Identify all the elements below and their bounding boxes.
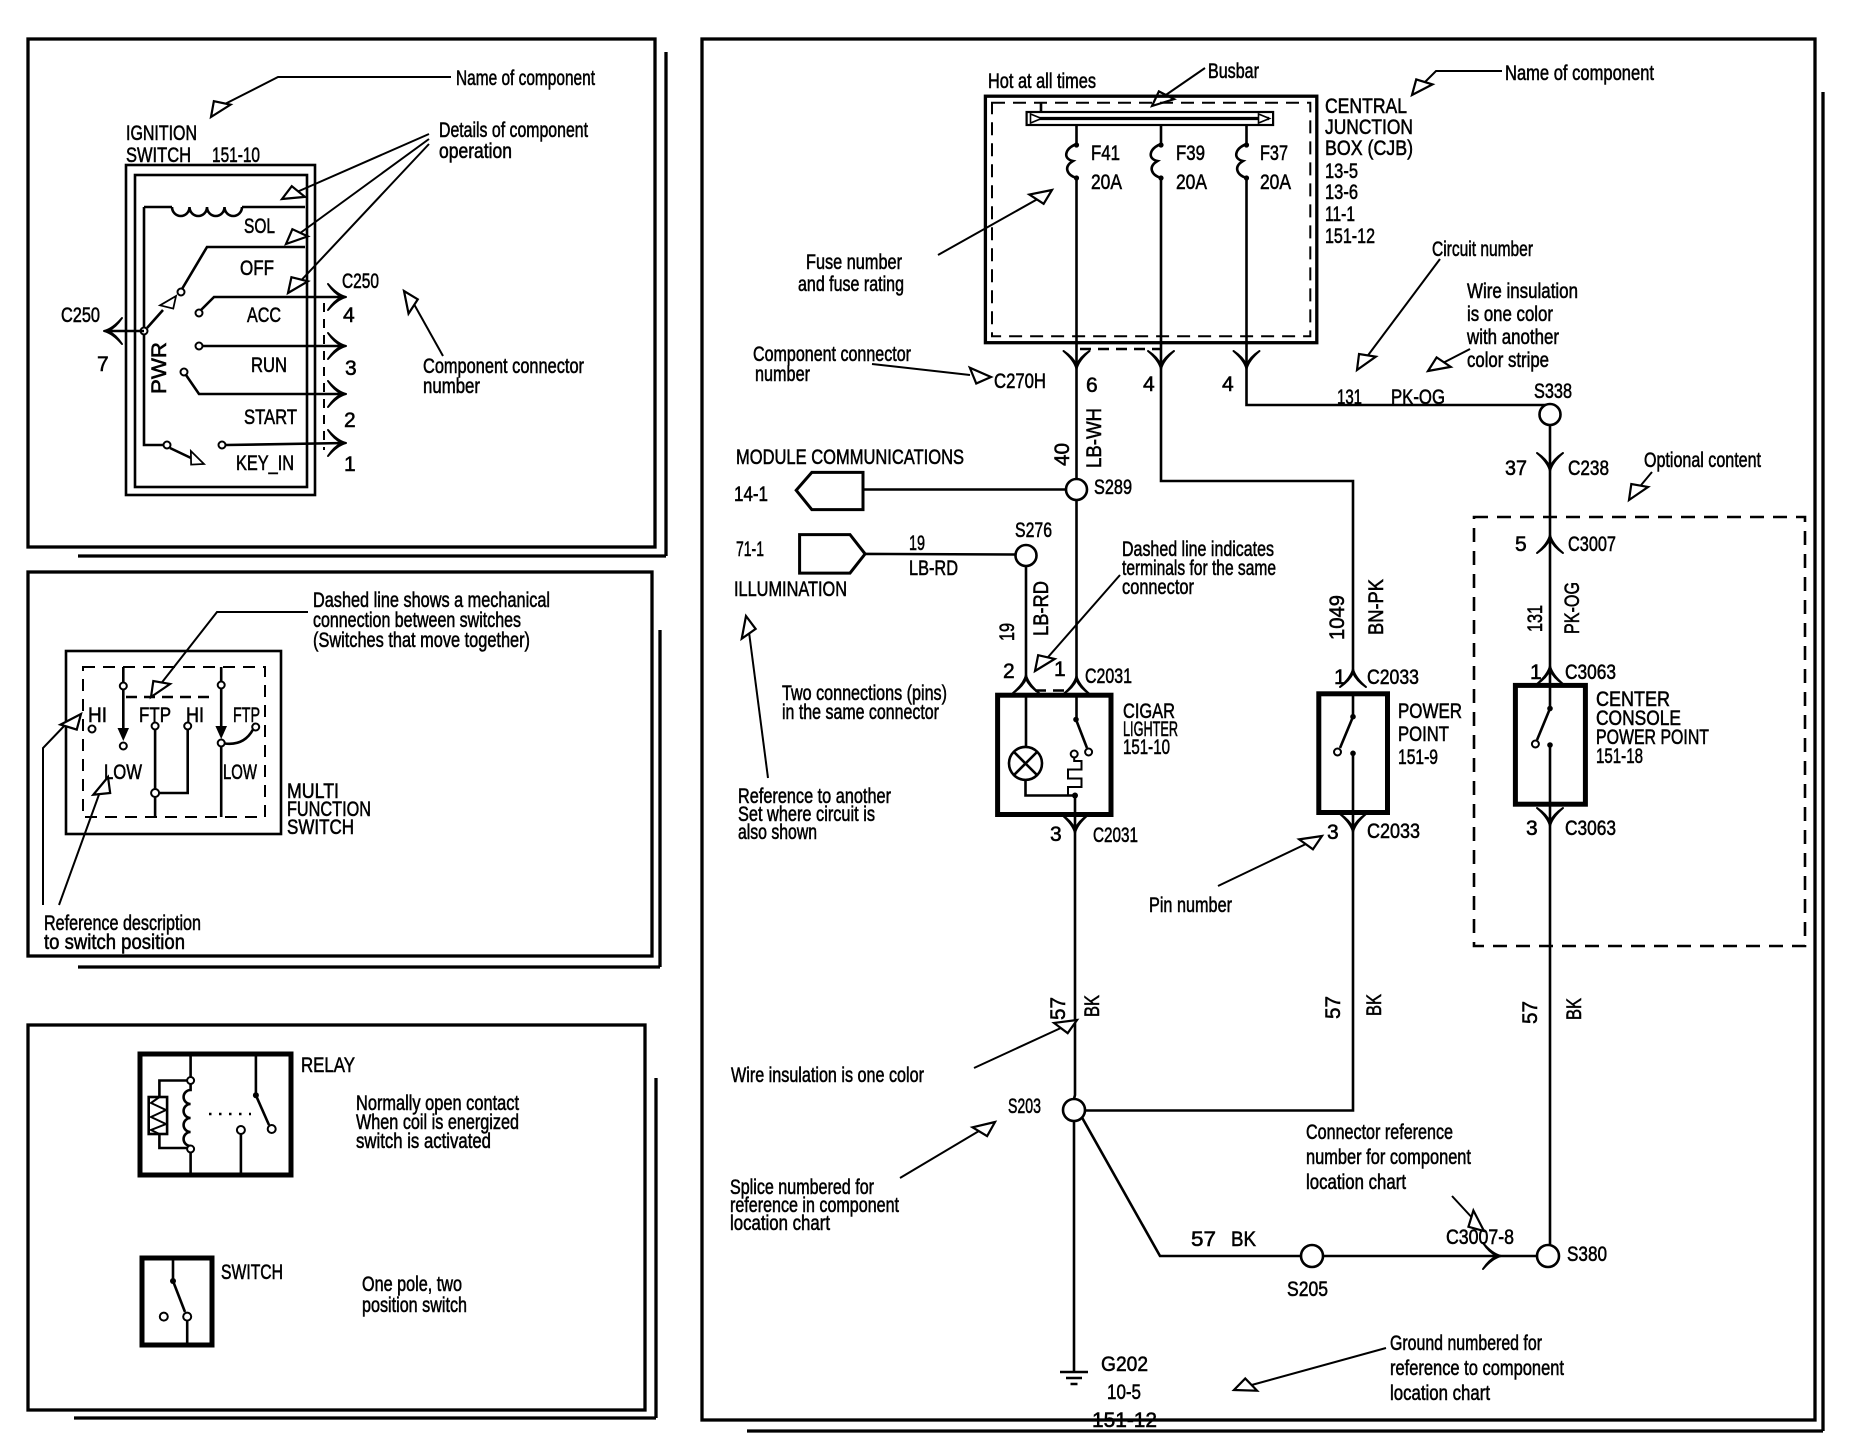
svg-text:151-12: 151-12 xyxy=(1325,225,1375,248)
svg-text:RUN: RUN xyxy=(251,354,287,377)
annotation: Dashed line indicates terminals xyxy=(1122,538,1276,599)
svg-text:S289: S289 xyxy=(1094,476,1132,499)
svg-text:Wire insulation: Wire insulation xyxy=(1467,280,1578,303)
svg-text:POINT: POINT xyxy=(1398,723,1449,746)
svg-text:151-12: 151-12 xyxy=(1092,1409,1157,1432)
annotation: Two connections xyxy=(782,682,947,724)
wire S276 to cigar lighter pin 2 xyxy=(1025,566,1028,676)
pivot contact C250-7 xyxy=(141,328,148,335)
svg-text:BK: BK xyxy=(1363,994,1386,1016)
svg-text:57: 57 xyxy=(1191,1228,1216,1251)
svg-text:C250: C250 xyxy=(342,270,379,293)
cigar lighter lamp wire xyxy=(1025,695,1028,747)
svg-text:LOW: LOW xyxy=(104,761,142,784)
svg-text:S338: S338 xyxy=(1534,380,1572,403)
svg-text:151-18: 151-18 xyxy=(1596,745,1643,768)
cigar lighter switch blade xyxy=(1076,720,1087,749)
svg-text:BK: BK xyxy=(1231,1228,1256,1251)
switch blade to OFF xyxy=(147,310,163,328)
annotation: One pole two position switch xyxy=(362,1273,467,1317)
pin 1 arrow C2033 xyxy=(1340,669,1366,687)
svg-text:LB-RD: LB-RD xyxy=(1030,581,1053,636)
KEY_IN wire to pin 1 xyxy=(226,443,345,445)
svg-text:2: 2 xyxy=(344,409,356,432)
svg-text:S205: S205 xyxy=(1287,1278,1328,1301)
leader to pin 3 xyxy=(1218,843,1308,886)
label F39 20A xyxy=(1176,142,1207,194)
OFF position wire xyxy=(182,247,305,289)
fuse F41 wire from busbar xyxy=(1075,125,1078,144)
pin 3 arrow C2033 xyxy=(1340,814,1366,832)
svg-text:G202: G202 xyxy=(1101,1353,1148,1376)
label G202 10-5 151-12 xyxy=(1092,1353,1157,1432)
svg-text:Hot at all times: Hot at all times xyxy=(988,70,1096,93)
splice S289 xyxy=(1066,479,1087,500)
annotation: Reference to another xyxy=(738,785,891,844)
svg-text:Optional content: Optional content xyxy=(1644,449,1761,472)
leader 3 details xyxy=(294,144,429,288)
svg-text:HI: HI xyxy=(88,704,107,727)
svg-text:Wire insulation is one color: Wire insulation is one color xyxy=(731,1064,924,1087)
svg-text:10-5: 10-5 xyxy=(1107,1381,1141,1404)
svg-text:C2031: C2031 xyxy=(1085,665,1132,688)
svg-text:with another: with another xyxy=(1466,326,1559,349)
power point output wire xyxy=(1352,753,1355,831)
switch output wire xyxy=(186,1321,189,1345)
wire 40 LB-WH xyxy=(1075,368,1078,479)
switch internal dashed boundary xyxy=(83,667,265,817)
svg-text:11-1: 11-1 xyxy=(1325,203,1355,226)
svg-text:also shown: also shown xyxy=(738,821,817,844)
wire power point to S203 junction xyxy=(1085,831,1353,1111)
svg-text:C2033: C2033 xyxy=(1367,820,1420,843)
leader to busbar xyxy=(1160,68,1205,99)
component label IGNITION SWITCH 151-10 xyxy=(126,122,260,167)
label F37 20A xyxy=(1260,142,1291,194)
svg-text:number for component: number for component xyxy=(1306,1146,1471,1169)
power point contact xyxy=(1350,751,1356,757)
leader to C270H xyxy=(872,364,970,375)
svg-text:to switch position: to switch position xyxy=(44,931,185,954)
svg-text:SWITCH: SWITCH xyxy=(126,144,191,167)
svg-text:position switch: position switch xyxy=(362,1294,467,1317)
RUN wire to pin 3 xyxy=(203,345,345,348)
svg-text:SWITCH: SWITCH xyxy=(287,816,354,839)
switch open contact xyxy=(160,1313,168,1321)
svg-text:KEY_IN: KEY_IN xyxy=(236,452,294,475)
wire F37 to pin 4 xyxy=(1245,178,1248,368)
svg-text:Name of component: Name of component xyxy=(456,67,595,90)
contact FTP 2 xyxy=(252,724,259,731)
cigar lighter lamp xyxy=(1009,747,1042,780)
pin 1 arrow C2031 xyxy=(1064,676,1090,694)
svg-text:4: 4 xyxy=(343,304,355,327)
leader to optional box xyxy=(1637,472,1652,490)
central junction box outline xyxy=(985,96,1316,343)
KEY_IN pivot contact xyxy=(164,442,171,449)
annotation: Component connector number xyxy=(753,343,911,386)
cigar lighter switch wire xyxy=(1075,695,1078,718)
svg-text:SOL: SOL xyxy=(244,215,275,238)
mechanical connection dashed line xyxy=(126,696,216,699)
svg-text:151-9: 151-9 xyxy=(1398,746,1438,769)
svg-text:BOX (CJB): BOX (CJB) xyxy=(1325,137,1413,160)
center console power point outline xyxy=(1515,685,1585,804)
wire FTP2 curve to LOW2 xyxy=(225,730,254,744)
wire cigar lighter to S203 xyxy=(1074,832,1075,1099)
svg-text:151-10: 151-10 xyxy=(1123,736,1170,759)
pin 37 arrow C238 xyxy=(1537,453,1563,471)
splice S380 xyxy=(1537,1245,1559,1267)
relay resistor xyxy=(149,1097,167,1134)
ground G202 xyxy=(1060,1372,1088,1384)
off-page connector ILLUMINATION xyxy=(734,535,865,601)
wire 71-1 to S276 xyxy=(865,553,1015,556)
svg-text:3: 3 xyxy=(1327,821,1339,844)
svg-text:C270H: C270H xyxy=(994,370,1046,393)
cc power point switch wire xyxy=(1549,685,1552,707)
svg-text:1: 1 xyxy=(344,453,356,476)
relay switch blade xyxy=(256,1095,269,1125)
svg-text:S380: S380 xyxy=(1567,1243,1607,1266)
fuse F37 xyxy=(1236,142,1249,180)
svg-text:LOW: LOW xyxy=(223,761,257,784)
svg-text:13-5: 13-5 xyxy=(1325,160,1358,183)
leader to BK wire xyxy=(974,1027,1063,1068)
svg-text:3: 3 xyxy=(1526,817,1538,840)
switch blade 2 pivot xyxy=(220,667,223,682)
relay mechanical dotted link xyxy=(209,1113,251,1116)
svg-text:operation: operation xyxy=(439,140,512,163)
RUN contact xyxy=(196,343,203,350)
svg-text:number: number xyxy=(423,375,480,398)
cigar lighter output wire xyxy=(1074,796,1077,833)
svg-text:1049: 1049 xyxy=(1326,595,1349,640)
annotation: Dashed line shows a mechanical connection xyxy=(313,589,550,652)
svg-text:IGNITION: IGNITION xyxy=(126,122,197,145)
svg-text:F39: F39 xyxy=(1176,142,1205,165)
wire cc power point to S380 xyxy=(1549,825,1550,1246)
pin 2 arrow C2031 xyxy=(1013,675,1039,693)
svg-text:BK: BK xyxy=(1081,995,1104,1017)
svg-text:Circuit number: Circuit number xyxy=(1432,238,1533,261)
svg-text:START: START xyxy=(244,406,297,429)
optional content dashed box xyxy=(1474,517,1805,946)
svg-text:in the same connector: in the same connector xyxy=(782,701,939,724)
splice S276 xyxy=(1016,545,1037,566)
svg-text:20A: 20A xyxy=(1260,171,1291,194)
svg-text:BK: BK xyxy=(1563,998,1586,1020)
leader to CJB name xyxy=(1419,71,1502,88)
svg-text:ILLUMINATION: ILLUMINATION xyxy=(734,578,847,601)
relay coil xyxy=(184,1084,191,1146)
leader 2 details xyxy=(292,139,429,239)
svg-text:3: 3 xyxy=(345,357,357,380)
cigar lighter lamp return wire xyxy=(1026,780,1076,796)
off-page connector MODULE COMMUNICATIONS xyxy=(734,446,964,510)
contact FTP 1 xyxy=(152,723,159,730)
ACC contact xyxy=(196,310,203,317)
svg-text:57: 57 xyxy=(1322,996,1345,1019)
wire S205 to S380 xyxy=(1323,1255,1537,1258)
annotation: Reference description to switch position xyxy=(44,912,201,954)
leader to dashed line xyxy=(1042,575,1120,664)
wire 14-1 to S289 xyxy=(863,488,1066,491)
svg-text:40: 40 xyxy=(1051,443,1074,466)
connector arrow C3007-8 xyxy=(1483,1243,1501,1269)
leader to fuse xyxy=(938,196,1043,255)
wire F39 to power point xyxy=(1161,368,1353,670)
cigar lighter outline xyxy=(998,695,1111,814)
svg-text:71-1: 71-1 xyxy=(736,538,764,561)
annotation: Ground numbered xyxy=(1390,1332,1564,1405)
START wire to pin 2 xyxy=(186,375,345,394)
annotation: Fuse number and fuse rating xyxy=(798,251,904,296)
connector C250 dashed line xyxy=(323,303,325,450)
switch blade 1 pivot xyxy=(122,667,125,683)
wire S203 to ground xyxy=(1073,1121,1076,1372)
svg-text:F41: F41 xyxy=(1091,142,1120,165)
fuse F41 xyxy=(1066,142,1079,180)
pin 6 arrow C270H xyxy=(1064,351,1090,369)
label CENTRAL JUNCTION BOX (CJB) xyxy=(1325,95,1413,248)
svg-text:CENTRAL: CENTRAL xyxy=(1325,95,1407,118)
leader to mechanical link xyxy=(156,612,308,690)
svg-text:C238: C238 xyxy=(1568,457,1609,480)
svg-text:F37: F37 xyxy=(1260,142,1288,165)
leader to PK-OG xyxy=(1437,349,1470,366)
contact LOW 1 xyxy=(120,743,127,750)
pin 4 arrow C270H xyxy=(1148,351,1174,369)
svg-text:C2033: C2033 xyxy=(1367,666,1419,689)
START contact xyxy=(181,369,188,376)
svg-text:reference to component: reference to component xyxy=(1390,1357,1564,1380)
power point outline xyxy=(1319,694,1388,813)
power point switch wire xyxy=(1352,694,1355,715)
solenoid coil SOL xyxy=(144,207,305,216)
splice S205 xyxy=(1301,1245,1323,1267)
switch blade 1 (to LOW) xyxy=(122,689,125,730)
switch common wire xyxy=(172,1258,175,1280)
wire HI2 to junction xyxy=(159,730,188,794)
svg-text:4: 4 xyxy=(1222,373,1234,396)
wire S203 diagonal to S205 run xyxy=(1082,1118,1301,1257)
svg-text:3: 3 xyxy=(1050,823,1062,846)
svg-text:JUNCTION: JUNCTION xyxy=(1325,116,1413,139)
splice S338 xyxy=(1540,404,1561,425)
annotation: Splice numbered xyxy=(730,1176,899,1235)
svg-text:PK-OG: PK-OG xyxy=(1561,582,1584,634)
svg-text:13-6: 13-6 xyxy=(1325,181,1358,204)
svg-text:Ground numbered for: Ground numbered for xyxy=(1390,1332,1542,1355)
svg-text:location chart: location chart xyxy=(1390,1382,1490,1405)
svg-text:151-10: 151-10 xyxy=(212,144,260,167)
svg-text:number: number xyxy=(755,363,810,386)
relay coil terminal bottom xyxy=(187,1146,194,1153)
ACC wire to pin 4 xyxy=(201,297,345,310)
svg-text:Pin number: Pin number xyxy=(1149,894,1232,917)
leader to S203 xyxy=(900,1128,984,1178)
svg-text:19: 19 xyxy=(996,623,1019,641)
svg-text:131: 131 xyxy=(1524,605,1547,632)
wire F41 to pin 6 xyxy=(1075,178,1078,368)
svg-text:ACC: ACC xyxy=(247,304,281,327)
pin 3 arrow C3063 xyxy=(1537,808,1563,826)
cc power point blade xyxy=(1537,709,1550,741)
svg-text:S203: S203 xyxy=(1008,1095,1041,1118)
svg-text:OFF: OFF xyxy=(240,257,274,280)
svg-text:C2031: C2031 xyxy=(1093,824,1138,847)
annotation: Wire insulation with stripe xyxy=(1466,280,1578,372)
svg-text:RELAY: RELAY xyxy=(301,1054,355,1077)
PWR bus wire xyxy=(144,207,164,445)
leader connector number xyxy=(410,297,443,356)
leader to HI xyxy=(43,723,67,905)
svg-text:FTP: FTP xyxy=(233,704,260,727)
fuse F39 wire from busbar xyxy=(1160,125,1163,144)
annotation: Normally open contact xyxy=(356,1092,519,1153)
wire FTP1 to junction xyxy=(154,730,157,790)
connector C270H dashed line xyxy=(1080,348,1160,351)
fuse F37 wire from busbar xyxy=(1245,125,1248,144)
label POWER POINT 151-9 xyxy=(1398,700,1462,769)
cigar lighter element contact xyxy=(1071,751,1078,758)
svg-text:57: 57 xyxy=(1519,1001,1542,1024)
power point blade xyxy=(1340,717,1353,748)
label CIGAR LIGHTER 151-10 xyxy=(1123,700,1178,759)
KEY_IN contact xyxy=(219,442,226,449)
svg-text:POWER: POWER xyxy=(1398,700,1462,723)
svg-text:C3007: C3007 xyxy=(1568,533,1616,556)
relay coil terminal top xyxy=(189,1054,192,1077)
svg-text:1: 1 xyxy=(1334,666,1346,689)
cigar lighter internal junction xyxy=(1072,793,1078,799)
label F41 20A xyxy=(1091,142,1122,194)
svg-text:Fuse number: Fuse number xyxy=(806,251,902,274)
label MULTI FUNCTION SWITCH xyxy=(287,780,371,839)
relay switch common xyxy=(255,1054,258,1095)
svg-text:57: 57 xyxy=(1047,997,1070,1020)
leader to 131 xyxy=(1363,259,1440,362)
multifunction switch outline xyxy=(66,651,281,834)
svg-text:MODULE COMMUNICATIONS: MODULE COMMUNICATIONS xyxy=(736,446,964,469)
svg-text:HI: HI xyxy=(186,704,204,727)
svg-text:switch is activated: switch is activated xyxy=(356,1130,491,1153)
svg-text:(Switches that move together): (Switches that move together) xyxy=(313,629,530,652)
contact HI 2 xyxy=(184,723,191,730)
wire F37 to S338 xyxy=(1247,368,1551,407)
svg-text:LB-RD: LB-RD xyxy=(909,557,958,580)
switch blade 2 (to LOW) xyxy=(220,688,223,728)
wire S289 to cigar lighter pin 1 xyxy=(1075,500,1078,677)
svg-text:20A: 20A xyxy=(1091,171,1122,194)
svg-text:C250: C250 xyxy=(61,304,100,327)
svg-text:6: 6 xyxy=(1086,374,1098,397)
ignition switch outline xyxy=(126,165,315,495)
svg-text:C3063: C3063 xyxy=(1565,661,1616,684)
switch blade xyxy=(173,1281,185,1312)
annotation: Component connector number xyxy=(423,355,584,398)
busbar xyxy=(1027,112,1274,125)
svg-text:C3063: C3063 xyxy=(1565,817,1616,840)
fuse F39 xyxy=(1151,142,1164,180)
svg-text:PWR: PWR xyxy=(148,342,171,394)
junction circle xyxy=(151,789,159,797)
svg-text:14-1: 14-1 xyxy=(734,483,768,506)
cc power point output wire xyxy=(1549,745,1552,825)
svg-text:5: 5 xyxy=(1515,533,1527,556)
KEY_IN blade xyxy=(170,448,191,458)
leader to ILLUMINATION xyxy=(749,632,768,778)
svg-text:S276: S276 xyxy=(1015,519,1052,542)
svg-text:Busbar: Busbar xyxy=(1208,60,1259,83)
OFF contact xyxy=(178,289,185,296)
svg-text:connector: connector xyxy=(1122,576,1194,599)
splice S203 xyxy=(1063,1099,1085,1121)
pin 5 arrow C3007 xyxy=(1537,535,1563,553)
svg-text:2: 2 xyxy=(1003,660,1015,683)
leader to LOW xyxy=(59,789,101,905)
wire LOW2 down xyxy=(220,747,223,818)
svg-text:1: 1 xyxy=(1054,658,1066,681)
wire F39 to pin 4 xyxy=(1160,178,1163,368)
relay NO contact xyxy=(237,1126,245,1134)
connector C2031 dashed line xyxy=(1035,689,1070,692)
svg-text:is one color: is one color xyxy=(1467,303,1553,326)
svg-text:FTP: FTP xyxy=(139,704,171,727)
svg-text:One pole, two: One pole, two xyxy=(362,1273,462,1296)
pin 3 arrow C2031 xyxy=(1062,815,1088,833)
svg-text:Details of component: Details of component xyxy=(439,119,588,142)
label CENTER CONSOLE POWER POINT 151-18 xyxy=(1596,688,1709,768)
svg-text:1: 1 xyxy=(1530,661,1542,684)
svg-text:color stripe: color stripe xyxy=(1467,349,1549,372)
pin 4b arrow C270H xyxy=(1234,351,1260,369)
svg-text:and fuse rating: and fuse rating xyxy=(798,273,904,296)
svg-text:19: 19 xyxy=(909,532,925,555)
leader to component name xyxy=(219,77,451,107)
busbar feed stub xyxy=(1040,103,1043,112)
svg-text:37: 37 xyxy=(1505,457,1527,480)
pin 1 arrow C3063 xyxy=(1537,666,1563,684)
wire S338 down xyxy=(1549,425,1552,685)
leader to C3007-8 xyxy=(1452,1196,1476,1222)
svg-text:SWITCH: SWITCH xyxy=(221,1261,283,1284)
svg-text:BN-PK: BN-PK xyxy=(1365,579,1388,635)
svg-text:LB-WH: LB-WH xyxy=(1083,408,1106,468)
relay resistor branch wire xyxy=(159,1081,187,1149)
svg-text:Name of component: Name of component xyxy=(1505,62,1654,85)
svg-text:7: 7 xyxy=(97,353,109,376)
annotation: Details of component operation xyxy=(439,119,588,163)
svg-text:20A: 20A xyxy=(1176,171,1207,194)
svg-text:4: 4 xyxy=(1143,373,1155,396)
relay outline xyxy=(140,1054,291,1175)
cigar lighter heating element xyxy=(1068,758,1082,796)
svg-text:location chart: location chart xyxy=(1306,1171,1406,1194)
contact HI 1 xyxy=(89,726,96,733)
contact LOW 2 xyxy=(218,740,225,747)
svg-text:Connector reference: Connector reference xyxy=(1306,1121,1453,1144)
wire junction down xyxy=(154,797,157,817)
wire to C250 pin 7 xyxy=(108,330,144,333)
annotation: Connector reference number xyxy=(1306,1121,1471,1194)
switch symbol outline xyxy=(142,1258,212,1345)
cc power point contact xyxy=(1547,742,1553,748)
svg-text:location chart: location chart xyxy=(730,1212,830,1235)
leader 1 details xyxy=(290,134,429,195)
leader to ground xyxy=(1248,1348,1386,1386)
